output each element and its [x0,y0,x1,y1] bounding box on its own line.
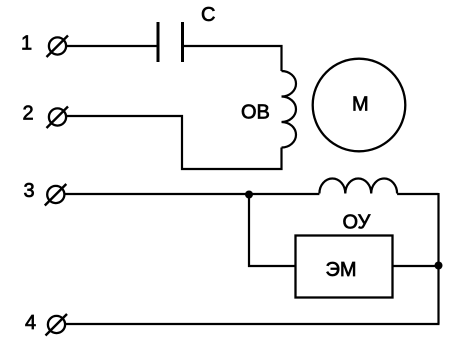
label OB [241,101,270,123]
inductor OU [319,179,397,194]
label EM [326,259,357,281]
terminal 4 [46,314,68,336]
wire terminal 3 to inductor OU [65,193,320,195]
label OU [343,211,371,233]
terminal 1 [47,36,69,58]
capacitor C [158,22,183,62]
label 2 [23,103,34,125]
wire inductor OU to right rail [397,193,438,195]
label 1 [21,33,32,55]
svg-text:4: 4 [25,312,36,334]
electromagnet EM box [296,236,393,298]
terminal 3 [45,184,67,206]
node junction on line 3 [245,191,253,199]
svg-text:3: 3 [24,180,35,202]
wire EM box to right rail [393,265,439,267]
wire terminal 4 to right rail [65,323,440,325]
wire right rail (vertical) [437,193,439,324]
wire winding OB bottom to terminal 2 [67,116,282,169]
node junction on right rail [435,262,443,270]
svg-text:C: C [201,4,215,26]
wire junction down to EM box [249,195,295,267]
label C [201,4,215,26]
motor M circle [313,59,406,152]
label 3 [24,180,35,202]
winding OB (field winding coil) [282,71,297,148]
label M [352,94,369,116]
svg-text:ЭМ: ЭМ [326,259,357,281]
svg-text:2: 2 [23,103,34,125]
svg-text:1: 1 [21,33,32,55]
wire capacitor to winding OB (top) [184,46,282,71]
svg-text:ОУ: ОУ [343,211,371,233]
label 4 [25,312,36,334]
svg-text:М: М [352,94,369,116]
terminal 2 [47,107,69,129]
wire terminal1 to capacitor [66,45,157,47]
svg-text:ОВ: ОВ [241,101,270,123]
